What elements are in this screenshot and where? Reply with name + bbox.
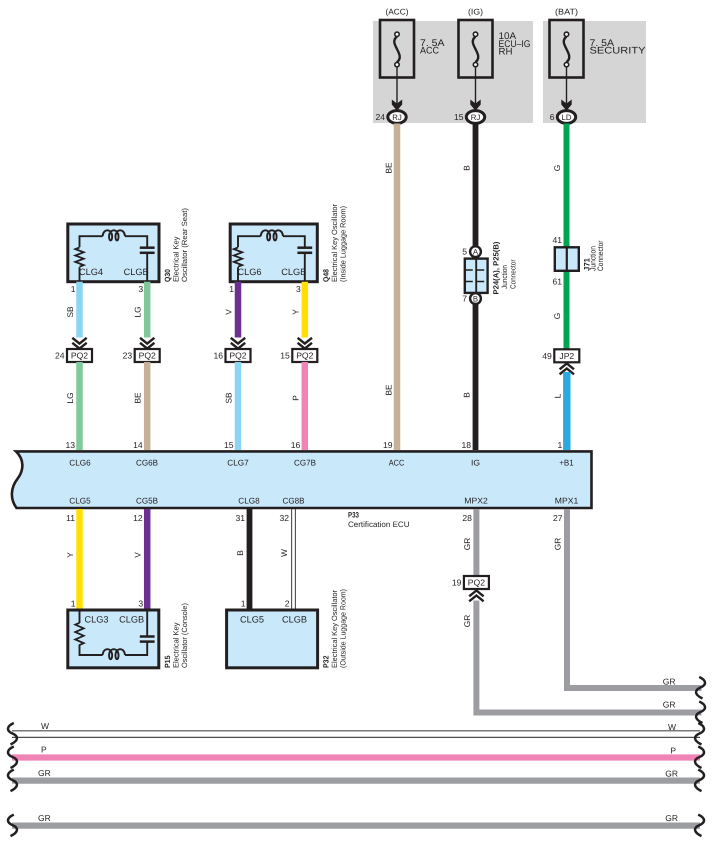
svg-text:CLG7: CLG7 bbox=[227, 458, 249, 468]
svg-text:G: G bbox=[552, 165, 562, 171]
svg-text:(Outside Luggage Room): (Outside Luggage Room) bbox=[339, 589, 348, 668]
svg-text:A: A bbox=[473, 248, 479, 257]
svg-text:CLG6: CLG6 bbox=[69, 458, 91, 468]
svg-text:L: L bbox=[553, 393, 563, 398]
svg-text:PQ2: PQ2 bbox=[468, 578, 485, 588]
svg-text:CLG4: CLG4 bbox=[79, 267, 103, 277]
svg-text:CLGB: CLGB bbox=[119, 614, 144, 624]
svg-text:GR: GR bbox=[665, 813, 678, 823]
svg-text:CLG5: CLG5 bbox=[69, 496, 91, 506]
svg-text:19: 19 bbox=[383, 440, 393, 450]
svg-text:W: W bbox=[668, 722, 676, 732]
svg-text:41: 41 bbox=[552, 235, 562, 245]
svg-text:3: 3 bbox=[138, 599, 143, 609]
svg-text:RJ: RJ bbox=[392, 113, 402, 122]
svg-text:MPX2: MPX2 bbox=[464, 496, 488, 506]
svg-text:CLGB: CLGB bbox=[282, 614, 307, 624]
svg-text:CLG3: CLG3 bbox=[85, 614, 109, 624]
svg-text:ACC: ACC bbox=[389, 458, 405, 468]
svg-text:PQ2: PQ2 bbox=[71, 351, 88, 361]
svg-text:BE: BE bbox=[384, 162, 394, 174]
svg-text:13: 13 bbox=[65, 440, 75, 450]
svg-text:19: 19 bbox=[452, 578, 462, 588]
svg-text:Oscillator (Console): Oscillator (Console) bbox=[180, 603, 189, 668]
svg-text:PQ2: PQ2 bbox=[296, 351, 313, 361]
svg-text:6: 6 bbox=[550, 112, 555, 122]
svg-text:B: B bbox=[462, 165, 472, 171]
svg-text:CG8B: CG8B bbox=[283, 496, 305, 506]
svg-text:CLG6: CLG6 bbox=[238, 267, 262, 277]
svg-text:W: W bbox=[41, 721, 49, 731]
svg-text:24: 24 bbox=[55, 351, 65, 361]
svg-text:LG: LG bbox=[133, 306, 143, 317]
svg-text:MPX1: MPX1 bbox=[555, 496, 579, 506]
svg-text:JP2: JP2 bbox=[559, 351, 574, 361]
svg-text:1: 1 bbox=[71, 599, 76, 609]
svg-text:BE: BE bbox=[133, 392, 143, 404]
svg-text:RJ: RJ bbox=[471, 113, 481, 122]
svg-text:CG6B: CG6B bbox=[136, 458, 158, 468]
svg-text:GR: GR bbox=[663, 677, 676, 687]
svg-text:5: 5 bbox=[462, 247, 467, 257]
svg-text:GR: GR bbox=[38, 768, 51, 778]
svg-text:P: P bbox=[670, 746, 676, 756]
svg-text:GR: GR bbox=[38, 813, 51, 823]
svg-text:2: 2 bbox=[285, 599, 290, 609]
svg-text:B: B bbox=[473, 295, 478, 304]
svg-text:15: 15 bbox=[454, 112, 464, 122]
svg-text:15: 15 bbox=[224, 440, 234, 450]
svg-text:W: W bbox=[279, 549, 289, 557]
svg-text:16: 16 bbox=[291, 440, 301, 450]
svg-text:(IG): (IG) bbox=[468, 7, 483, 17]
svg-text:Y: Y bbox=[65, 552, 75, 558]
svg-text:RH: RH bbox=[499, 47, 513, 58]
svg-text:32: 32 bbox=[279, 513, 289, 523]
svg-text:11: 11 bbox=[66, 513, 75, 523]
svg-text:23: 23 bbox=[123, 351, 133, 361]
svg-text:24: 24 bbox=[375, 112, 385, 122]
svg-text:Connector: Connector bbox=[508, 259, 517, 289]
svg-text:LD: LD bbox=[562, 113, 572, 122]
svg-text:SB: SB bbox=[224, 392, 234, 404]
svg-text:CLGB: CLGB bbox=[281, 267, 306, 277]
svg-text:P: P bbox=[41, 745, 47, 755]
svg-text:GR: GR bbox=[462, 538, 472, 550]
svg-text:ACC: ACC bbox=[420, 46, 439, 57]
svg-text:+B1: +B1 bbox=[559, 458, 574, 468]
svg-text:16: 16 bbox=[213, 351, 223, 361]
svg-text:B: B bbox=[462, 392, 472, 398]
svg-text:CLG8: CLG8 bbox=[238, 496, 260, 506]
svg-text:1: 1 bbox=[241, 599, 246, 609]
svg-text:Connector: Connector bbox=[596, 240, 605, 271]
svg-text:GR: GR bbox=[665, 769, 678, 779]
svg-text:SB: SB bbox=[65, 306, 75, 318]
svg-text:(BAT): (BAT) bbox=[555, 7, 578, 17]
svg-text:CG7B: CG7B bbox=[294, 458, 316, 468]
svg-text:1: 1 bbox=[71, 284, 76, 294]
svg-text:GR: GR bbox=[663, 700, 676, 710]
svg-text:GR: GR bbox=[462, 615, 472, 627]
svg-text:Certification ECU: Certification ECU bbox=[348, 520, 410, 529]
svg-text:PQ2: PQ2 bbox=[229, 351, 246, 361]
svg-text:7: 7 bbox=[462, 294, 467, 304]
svg-text:LG: LG bbox=[65, 392, 75, 403]
svg-text:12: 12 bbox=[133, 513, 143, 523]
svg-text:1: 1 bbox=[558, 440, 563, 450]
svg-text:(ACC): (ACC) bbox=[386, 7, 409, 17]
svg-text:IG: IG bbox=[471, 458, 480, 468]
svg-text:31: 31 bbox=[235, 513, 245, 523]
svg-text:B: B bbox=[235, 550, 245, 556]
svg-text:SECURITY: SECURITY bbox=[590, 46, 647, 57]
svg-text:3: 3 bbox=[138, 284, 143, 294]
svg-text:GR: GR bbox=[553, 538, 563, 550]
svg-text:BE: BE bbox=[384, 384, 394, 396]
svg-text:(Inside Luggage Room): (Inside Luggage Room) bbox=[339, 206, 348, 282]
svg-text:Oscillator (Rear Seat): Oscillator (Rear Seat) bbox=[180, 208, 189, 282]
svg-text:G: G bbox=[552, 313, 562, 319]
svg-text:1: 1 bbox=[229, 284, 234, 294]
svg-text:18: 18 bbox=[461, 440, 471, 450]
svg-text:15: 15 bbox=[280, 351, 290, 361]
svg-text:Y: Y bbox=[290, 309, 300, 315]
svg-text:V: V bbox=[224, 309, 234, 315]
svg-text:27: 27 bbox=[553, 513, 563, 523]
svg-text:P33: P33 bbox=[348, 511, 360, 520]
svg-text:CLG5: CLG5 bbox=[240, 614, 264, 624]
svg-text:CLGB: CLGB bbox=[124, 267, 149, 277]
svg-text:28: 28 bbox=[462, 513, 472, 523]
svg-text:3: 3 bbox=[296, 284, 301, 294]
svg-text:CG5B: CG5B bbox=[136, 496, 158, 506]
svg-text:14: 14 bbox=[133, 440, 143, 450]
svg-text:V: V bbox=[133, 552, 143, 558]
svg-text:49: 49 bbox=[542, 351, 552, 361]
svg-text:PQ2: PQ2 bbox=[139, 351, 156, 361]
svg-text:P: P bbox=[290, 395, 300, 401]
svg-text:61: 61 bbox=[552, 277, 562, 287]
